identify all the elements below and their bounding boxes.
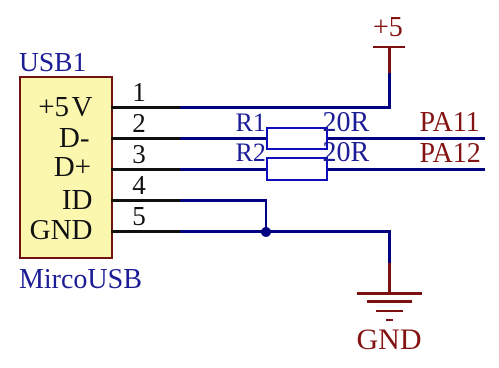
wire pin2 to PA11 [180,137,485,139]
pin 3 number [119,141,159,168]
pin 5 lead [111,230,180,232]
pin 3 lead [111,168,180,170]
ground bar 1 [357,292,422,295]
pin 2 lead [111,137,180,139]
wire pin3 to PA12 [180,168,485,170]
resistor R2 value 20R [323,139,370,167]
connector USB1 body [19,76,113,259]
power +5 bar [373,46,406,49]
pin 2 number [119,110,159,137]
power +5 label [373,14,403,42]
pin 1 lead [111,106,180,108]
pin 5 name GND [18,216,93,245]
pin 4 number [119,172,159,199]
designator USB1 [19,48,86,76]
power +5 stem [388,48,390,73]
resistor R1 value 20R [323,109,370,137]
resistor R2 [266,157,328,181]
label MircoUSB [19,266,142,294]
pin 4 lead [111,199,180,201]
wire pin1 to +5 [180,106,391,108]
net label PA11 [420,109,480,137]
wire +5 vertical [388,73,390,108]
wire pin4 vertical to junction [265,199,267,232]
wire ground vertical [388,230,390,263]
net label PA12 [420,140,481,168]
resistor R1 [266,127,328,151]
ground bar 4 [386,319,393,322]
pin 2 name D- [18,124,90,153]
pin 4 name ID [18,186,93,215]
pin 3 name D+ [18,153,91,182]
resistor R1 designator [236,110,266,136]
ground bar 2 [367,300,412,303]
junction node [261,227,271,237]
ground label GND [357,325,422,355]
pin 5 number [119,203,159,230]
wire pin5 to ground [180,230,391,232]
pin 1 number [119,79,159,106]
ground bar 3 [376,310,403,313]
resistor R2 designator [236,140,266,166]
pin 1 name +5V [18,93,93,122]
ground stem [388,263,390,294]
wire pin4 horizontal [180,199,267,201]
